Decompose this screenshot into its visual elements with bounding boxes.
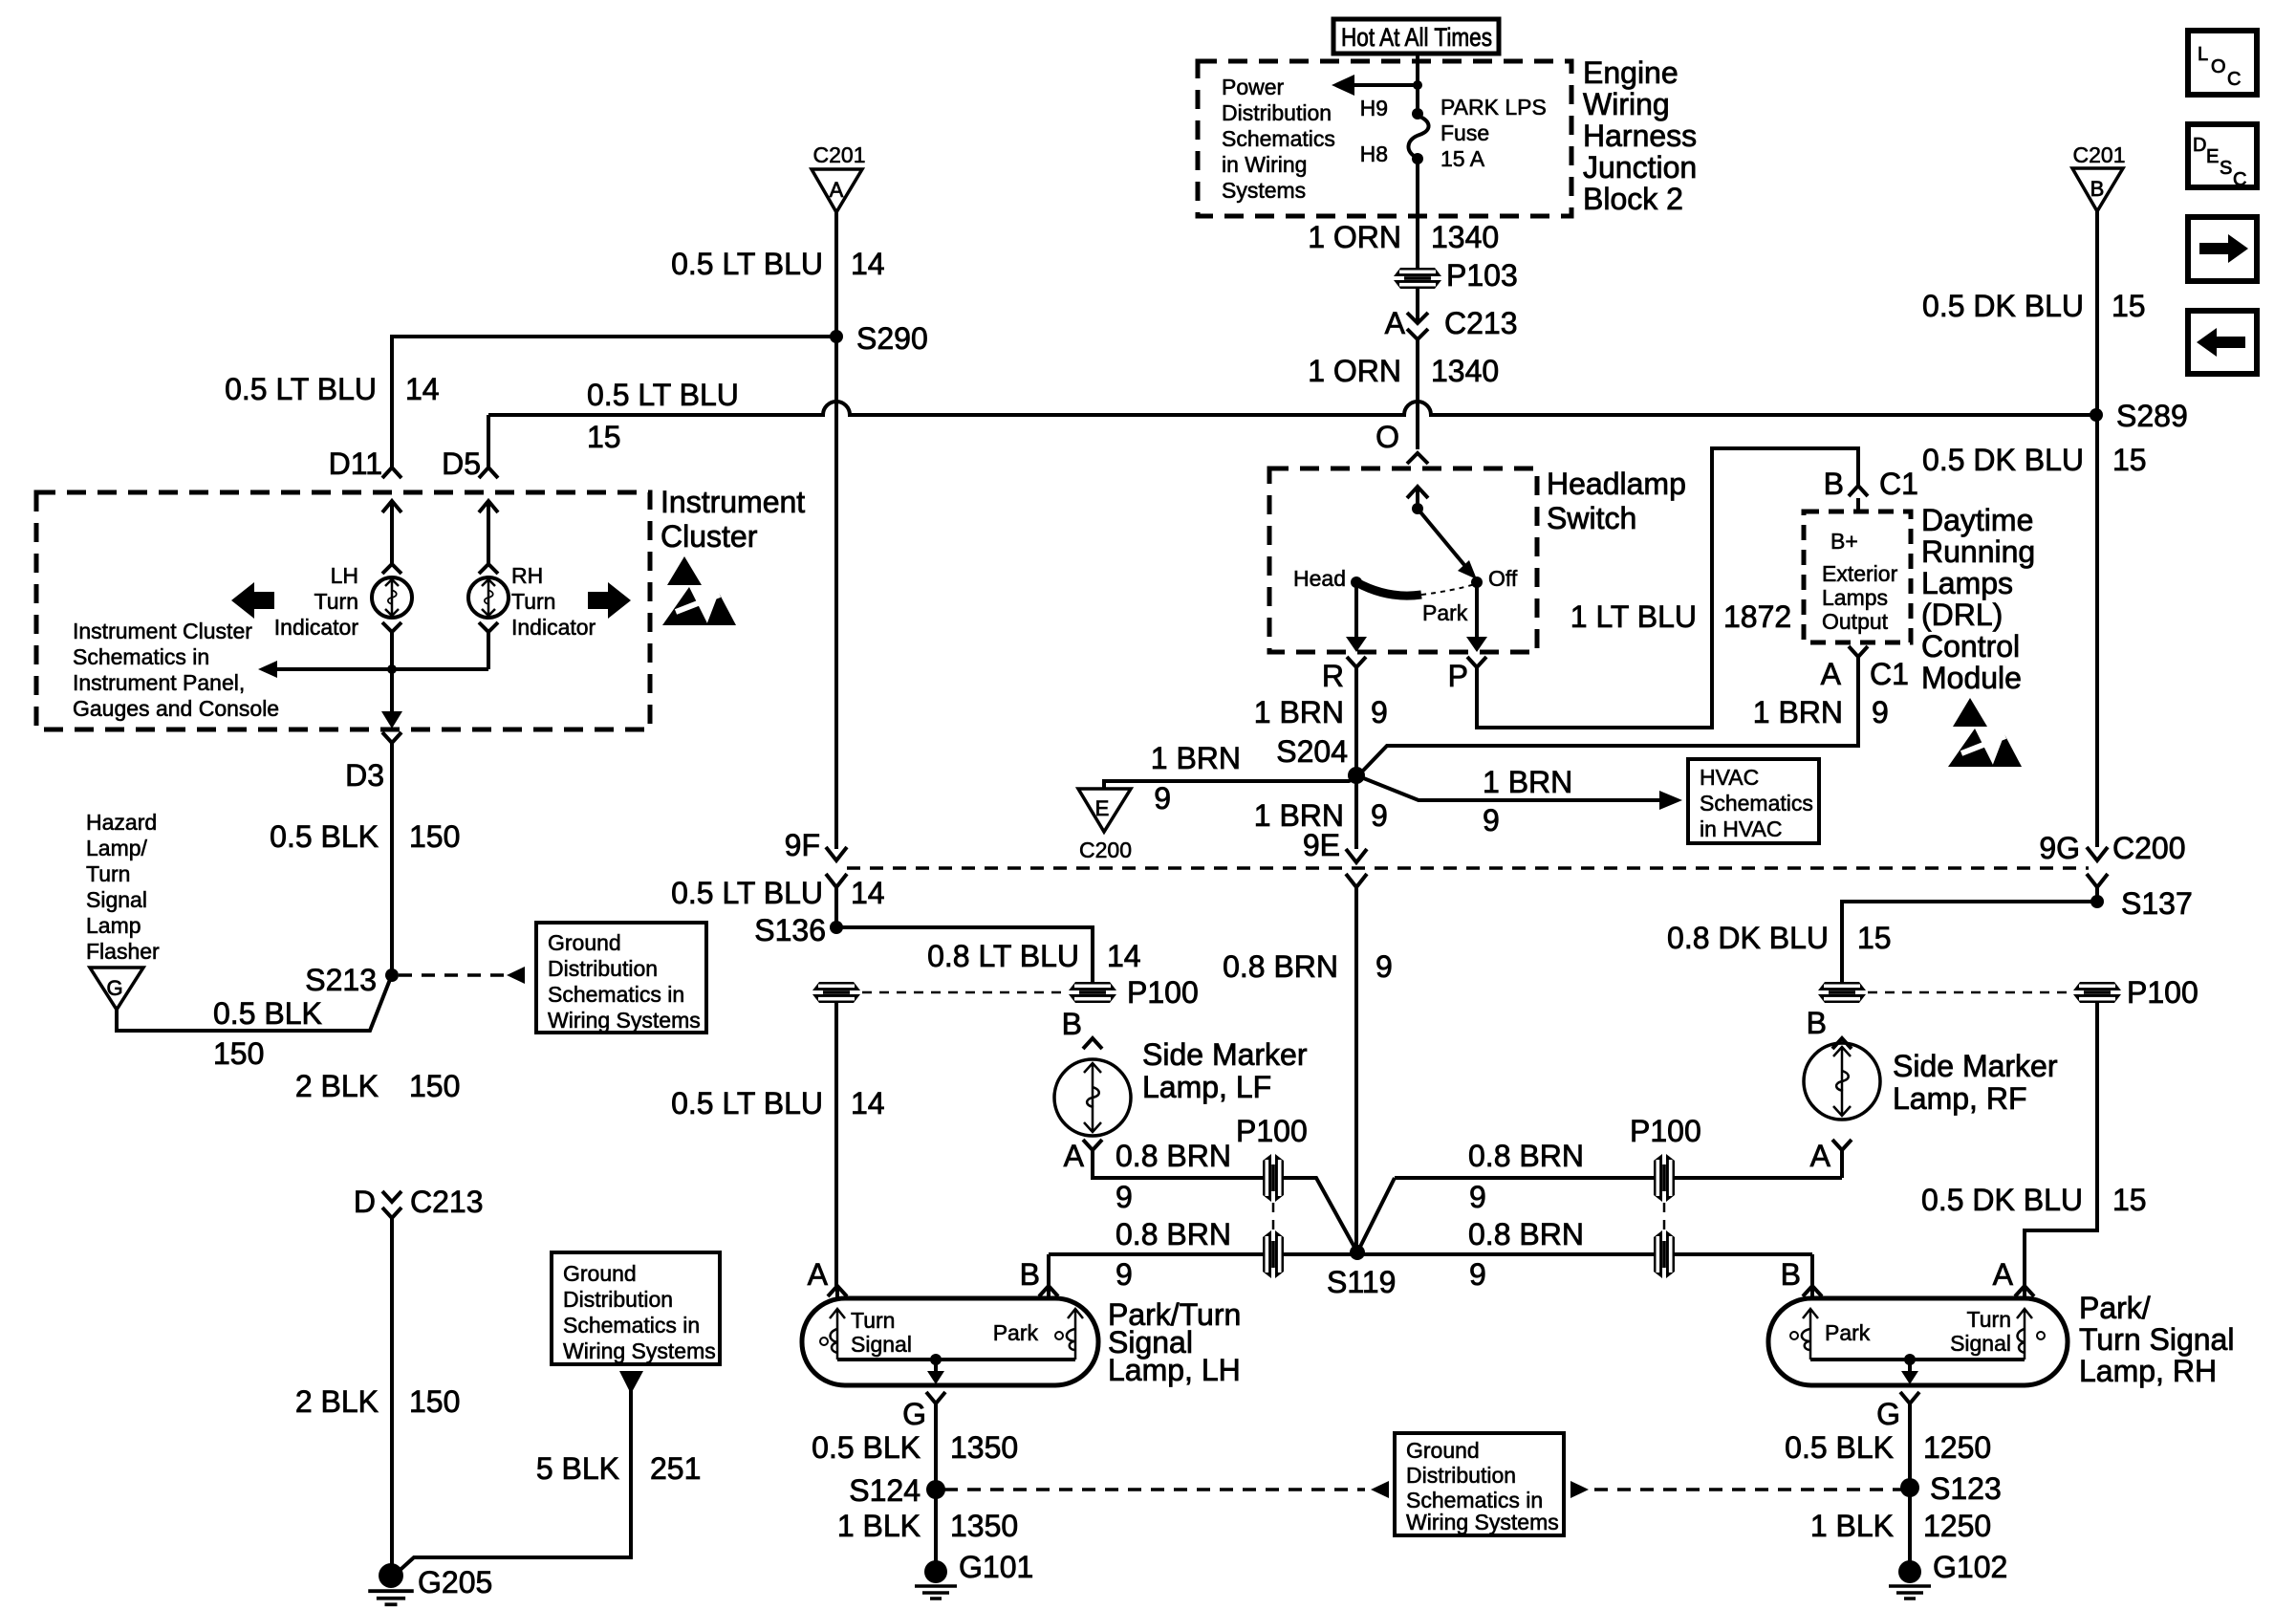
svg-text:P103: P103 [1446,258,1518,293]
dashed box headlamp switch [1269,468,1537,652]
svg-text:9: 9 [1371,695,1388,729]
terminal O [1375,420,1428,509]
label 0.8 BRN / 9 (lower left) [1116,1217,1231,1292]
svg-text:R: R [1322,659,1344,693]
label 0.5 BLK 1350 [812,1430,1018,1465]
svg-text:9: 9 [1469,1257,1486,1292]
svg-text:0.5 LT BLU: 0.5 LT BLU [225,372,377,406]
wire S136 branch to LF marker [836,927,1093,982]
label 0.8 BRN / 9 (upper right) [1468,1139,1584,1214]
svg-text:Systems: Systems [1222,178,1306,203]
splice S137 [2090,886,2193,921]
note Instrument Cluster Schematics in Instrument Panel, Gauges and Console [73,619,279,721]
svg-text:PARK LPS: PARK LPS [1440,95,1547,120]
svg-text:Module: Module [1921,661,2022,695]
wire S290 branch to D11 [392,337,836,468]
label Headlamp Switch [1547,467,1686,535]
splice S119 [1327,1178,1396,1299]
svg-text:1 BLK: 1 BLK [837,1509,921,1543]
svg-text:15: 15 [587,420,621,454]
svg-text:150: 150 [409,819,460,854]
wire P103 to C213 [1416,289,1419,322]
svg-text:E: E [1095,796,1110,820]
svg-text:15 A: 15 A [1440,146,1485,171]
legend box right arrow [2188,217,2257,281]
svg-text:0.8 BRN: 0.8 BRN [1468,1217,1584,1251]
svg-text:S136: S136 [754,913,826,947]
svg-text:9G: 9G [2039,831,2080,865]
svg-text:0.8 BRN: 0.8 BRN [1116,1217,1231,1251]
svg-text:A: A [1064,1139,1085,1173]
wire fuse to P103 [1416,159,1419,269]
svg-text:C213: C213 [410,1185,484,1219]
svg-text:5 BLK: 5 BLK [536,1451,619,1486]
terminal A (RH lamp) [1993,1257,2034,1298]
svg-text:RH: RH [511,563,543,588]
lamp body Park/Turn Signal LH (oval) [802,1298,1098,1385]
lamp common and ground exit [837,1354,1075,1384]
svg-text:H8: H8 [1360,141,1388,166]
label 0.5 BLK 150 [270,819,460,854]
wire 9F to S136 [834,887,838,927]
svg-text:0.5 LT BLU: 0.5 LT BLU [587,378,739,412]
svg-text:9: 9 [1872,695,1889,729]
svg-text:15: 15 [2112,289,2146,323]
label RH Turn Indicator [511,563,596,640]
svg-text:9: 9 [1483,803,1500,838]
svg-text:Headlamp: Headlamp [1547,467,1686,501]
terminal G (RH lamp) [1876,1392,1919,1479]
label 1 ORN 1340 lower [1308,354,1499,388]
dashed ref wire S213 to ground distribution box [399,967,525,984]
svg-text:Harness: Harness [1583,119,1697,153]
svg-text:Wiring Systems: Wiring Systems [563,1338,716,1363]
svg-text:Cluster: Cluster [661,519,758,554]
svg-text:Hazard: Hazard [86,810,157,835]
svg-text:G205: G205 [418,1565,492,1599]
arrow out of box (right) [1570,1481,1589,1498]
svg-text:A: A [830,178,844,202]
svg-text:C213: C213 [1444,306,1518,340]
svg-text:2 BLK: 2 BLK [295,1384,379,1419]
svg-text:S119: S119 [1327,1265,1396,1299]
svg-text:D: D [354,1185,376,1219]
label LH Turn Indicator [274,563,359,640]
splice S204 [1276,734,1365,784]
splice S124 [849,1473,945,1508]
svg-text:Signal: Signal [86,887,147,912]
terminal A (LH lamp) [808,1257,847,1298]
svg-text:9F: 9F [785,828,820,862]
label 2 BLK 150 [295,1069,461,1103]
box Ground Distribution Schematics in Wiring Systems (bottom center) [1395,1433,1564,1535]
wire 5 BLK 251 from box to G205 [394,1371,643,1576]
svg-text:Indicator: Indicator [511,615,596,640]
svg-text:Lamp: Lamp [86,913,141,938]
svg-text:Lamp/: Lamp/ [86,836,148,860]
svg-text:Output: Output [1822,609,1889,634]
svg-text:C201: C201 [2073,142,2126,167]
svg-text:Wiring Systems: Wiring Systems [1406,1510,1559,1534]
svg-text:14: 14 [1107,939,1141,973]
label 0.5 LT BLU 14 (lower) [671,1086,885,1120]
label B+ Exterior Lamps Output [1822,529,1898,634]
lamp LH turn indicator [372,564,412,632]
label 0.8 BRN / 9 (lower right) [1468,1217,1584,1292]
wire P leg [1466,448,1858,728]
dashed ref wire S124 to box [944,1488,1365,1491]
wire S123 to G102 [1908,1488,1912,1561]
svg-text:B+: B+ [1830,529,1858,554]
svg-text:Instrument: Instrument [661,485,805,519]
dashed box instrument cluster [36,492,650,729]
wire S137 branch to RF marker [1842,902,2097,982]
svg-text:1350: 1350 [950,1509,1018,1543]
svg-text:O: O [2211,56,2226,77]
wire S204 to E C200 [1104,778,1356,789]
svg-text:15: 15 [2112,443,2147,477]
svg-text:Turn Signal: Turn Signal [2079,1322,2234,1357]
svg-text:Flasher: Flasher [86,939,160,964]
svg-text:(DRL): (DRL) [1921,598,2003,632]
svg-text:Ground: Ground [563,1261,637,1286]
wire D3 to S213 [390,755,394,975]
label 0.5 DK BLU 15 (below S289) [1922,443,2147,477]
connector A C213 [1385,306,1518,340]
svg-text:15: 15 [2112,1183,2147,1217]
svg-text:P100: P100 [1630,1114,1701,1148]
svg-text:1340: 1340 [1431,220,1499,254]
svg-text:Block 2: Block 2 [1583,182,1683,216]
svg-text:A: A [1385,306,1406,340]
svg-text:0.8 BRN: 0.8 BRN [1468,1139,1584,1173]
svg-text:1350: 1350 [950,1430,1018,1465]
svg-text:P: P [1448,659,1468,693]
svg-text:B: B [1824,467,1844,501]
svg-text:Engine: Engine [1583,55,1679,90]
svg-text:Lamp, RH: Lamp, RH [2079,1354,2217,1388]
svg-text:15: 15 [1857,921,1892,955]
svg-text:Distribution: Distribution [563,1287,673,1312]
svg-text:9: 9 [1371,798,1388,833]
svg-text:A: A [1821,657,1842,691]
svg-text:C200: C200 [2112,831,2186,865]
svg-text:in HVAC: in HVAC [1700,816,1783,841]
svg-text:Signal: Signal [851,1332,912,1357]
label 0.5 LT BLU 14 (D11 branch) [225,372,440,406]
wire C213 to G205 [390,1218,394,1564]
svg-text:2 BLK: 2 BLK [295,1069,379,1103]
svg-text:Wiring Systems: Wiring Systems [548,1008,701,1033]
svg-text:Gauges and Console: Gauges and Console [73,696,279,721]
wire S289 to D5 with hops [488,402,2096,415]
svg-text:Junction: Junction [1583,150,1697,185]
legend box left arrow [2188,311,2257,374]
switch blade and contacts [1351,503,1483,596]
terminal D5 [442,446,498,564]
svg-text:0.8 BRN: 0.8 BRN [1116,1139,1231,1173]
svg-text:Side Marker: Side Marker [1893,1049,2058,1083]
svg-text:G: G [1876,1397,1900,1431]
svg-text:0.5 BLK: 0.5 BLK [1785,1430,1894,1465]
svg-text:14: 14 [851,1086,885,1120]
label 1 BRN 9 (DRL A) [1753,695,1889,729]
dashed connector line C200 [847,866,2089,870]
terminal B (LH lamp) [1020,1254,1058,1298]
svg-text:0.8 BRN: 0.8 BRN [1223,949,1338,984]
svg-text:S204: S204 [1276,734,1348,769]
svg-text:Indicator: Indicator [274,615,359,640]
svg-text:Instrument Panel,: Instrument Panel, [73,670,245,695]
park element LH [1055,1309,1083,1360]
ground G101 [915,1550,1033,1599]
svg-text:Schematics: Schematics [1700,791,1813,816]
svg-text:D3: D3 [345,758,384,793]
svg-text:1 BRN: 1 BRN [1254,695,1344,729]
label 0.8 DK BLU 15 [1667,921,1892,955]
svg-text:1872: 1872 [1723,599,1791,634]
svg-text:Distribution: Distribution [1222,100,1332,125]
svg-text:0.5 BLK: 0.5 BLK [812,1430,921,1465]
svg-text:1 LT BLU: 1 LT BLU [1570,599,1697,634]
svg-text:Lamp, RF: Lamp, RF [1893,1081,2026,1116]
wire flasher G to S213 [117,977,391,1031]
big arrow left (LH) [231,582,274,619]
svg-text:Distribution: Distribution [548,956,658,981]
svg-text:E: E [2206,146,2219,167]
svg-text:0.5 DK BLU: 0.5 DK BLU [1922,443,2084,477]
wire S290 down to 9F [834,337,838,849]
svg-text:0.8 DK BLU: 0.8 DK BLU [1667,921,1829,955]
lamp body Park/Turn Signal RH (oval) [1768,1298,2068,1385]
svg-text:Power: Power [1222,75,1285,99]
wire from Hot box down to fuse [1416,54,1419,114]
label 0.8 BRN / 9 (upper left) [1116,1139,1231,1214]
svg-text:9: 9 [1116,1257,1133,1292]
svg-text:HVAC: HVAC [1700,765,1759,790]
note Power Distribution Schematics in Wiring Systems [1222,75,1335,203]
svg-text:D11: D11 [329,446,382,481]
svg-text:0.8 LT BLU: 0.8 LT BLU [927,939,1079,973]
label 0.5 LT BLU 14 [671,247,885,281]
wire C213 to headlamp switch O [1416,339,1419,449]
box Ground Distribution Schematics in Wiring Systems (lower left) [552,1252,720,1364]
lamp RH turn indicator [468,564,509,632]
svg-text:Wiring: Wiring [1583,87,1670,121]
svg-text:C: C [2227,69,2241,90]
ground G102 [1889,1550,2007,1599]
splice S289 [2090,399,2188,433]
label 0.5 LT BLU 14 (9F row) [671,876,885,910]
label Engine Wiring Harness Junction Block 2 [1583,55,1697,216]
wire D5 drop [487,415,490,468]
svg-text:Lamp, LH: Lamp, LH [1108,1353,1241,1387]
splice S290 [830,321,928,356]
svg-text:Exterior: Exterior [1822,561,1898,586]
label 0.5 LT BLU / 15 [587,378,739,454]
svg-text:B: B [1062,1007,1082,1041]
label 1 ORN 1340 [1308,220,1499,254]
label 0.8 BRN 9 (center) [1223,949,1393,984]
fuse PARK LPS 15A (H9-H8) [1408,108,1428,164]
svg-text:Side Marker: Side Marker [1142,1037,1308,1072]
label 1 BRN 9 / 9E [1254,798,1388,862]
svg-text:0.5 BLK: 0.5 BLK [270,819,379,854]
dashed box DRL exterior lamps output [1804,511,1911,642]
svg-text:Lamps: Lamps [1822,585,1888,610]
svg-text:Signal: Signal [1950,1331,2011,1356]
note Hazard Lamp/Turn Signal Lamp Flasher [86,810,160,964]
svg-text:P100: P100 [2127,975,2199,1010]
label Park/ Turn Signal Lamp, RH [2079,1291,2234,1388]
svg-text:S289: S289 [2116,399,2188,433]
svg-text:P100: P100 [1127,975,1199,1010]
label 1 BRN 9 (R leg) [1254,695,1388,729]
dashed box Engine Wiring Harness Junction Block 2 [1198,61,1571,216]
wire S137 column down to RH lamp A [2025,1003,2097,1286]
connector C201 A triangle [812,142,865,212]
wire lower left run (LH lamp B to S119) [1049,1252,1812,1256]
svg-text:1 BRN: 1 BRN [1483,765,1572,799]
label Turn Signal [851,1308,912,1357]
legend box LOC [2188,31,2257,95]
svg-text:A: A [1993,1257,2014,1292]
svg-text:S137: S137 [2121,886,2193,921]
svg-text:Schematics in: Schematics in [548,982,684,1007]
svg-text:D: D [2193,135,2206,156]
svg-text:Off: Off [1488,566,1518,591]
svg-text:150: 150 [213,1036,264,1071]
svg-text:C1: C1 [1870,657,1909,691]
svg-text:Turn: Turn [86,861,130,886]
terminal B C1 [1824,467,1918,511]
connector G triangle (flasher) [90,968,143,1010]
terminal 9F [785,828,847,887]
connector P100 pair (S136 column) [812,975,1199,1010]
label Side Marker Lamp, LF [1142,1037,1308,1104]
svg-text:Turn: Turn [314,589,358,614]
connector C201 B triangle [2072,142,2125,211]
connector P103 [1394,258,1518,293]
terminal G (LH lamp) [902,1392,945,1481]
svg-text:Distribution: Distribution [1406,1463,1516,1488]
label Park/Turn Signal Lamp, LH [1108,1297,1241,1387]
label 1 BRN / 9 (HVAC wire) [1483,765,1572,838]
svg-text:0.5 LT BLU: 0.5 LT BLU [671,876,823,910]
terminal A of LF marker [1064,1139,1102,1173]
svg-text:Schematics in: Schematics in [563,1313,700,1338]
svg-text:Schematics in: Schematics in [73,644,209,669]
svg-text:Park: Park [993,1320,1039,1345]
svg-text:9: 9 [1375,949,1393,984]
svg-text:C1: C1 [1879,467,1918,501]
svg-text:in Wiring: in Wiring [1222,152,1307,177]
splice S123 [1900,1471,2002,1506]
wire C201A to S290 [834,212,838,337]
wire S124 to G101 [934,1490,938,1561]
lamp side marker RF [1804,1006,1880,1120]
svg-text:1250: 1250 [1923,1430,1991,1465]
svg-text:B: B [1781,1257,1801,1292]
wire DRL A to S204 [1363,657,1858,771]
svg-text:B: B [2090,177,2105,201]
svg-text:Running: Running [1921,534,2035,569]
wire P100 down to LH lamp A [834,1003,838,1286]
wire junction of both indicators [258,632,488,678]
wire junction down to D3, exit arrow [381,669,402,755]
terminal A C1 [1821,646,1909,691]
svg-text:L: L [2198,44,2208,65]
wire LF marker A to S119 (upper left run) [1093,1150,1263,1178]
svg-text:Turn: Turn [511,589,555,614]
svg-text:Fuse: Fuse [1440,120,1489,145]
svg-text:251: 251 [650,1451,701,1486]
arrow to power distribution [1332,75,1422,96]
svg-text:150: 150 [409,1069,460,1103]
ESD symbol DRL [1948,698,2022,767]
connector P100 vertical pair (left) [1236,1114,1308,1278]
splice S136 [754,913,843,947]
label Turn Signal (RH) [1950,1307,2011,1356]
label PARK LPS Fuse 15 A [1440,95,1547,171]
terminal D11 [329,446,401,564]
wire C201B to S289 [2095,211,2099,415]
svg-text:150: 150 [409,1384,460,1419]
park element RH [1790,1309,1818,1360]
box Hot At All Times [1333,19,1499,54]
wire R leg [1346,582,1367,775]
svg-text:0.5 LT BLU: 0.5 LT BLU [671,247,823,281]
svg-text:Lamp, LF: Lamp, LF [1142,1070,1271,1104]
svg-text:1 BRN: 1 BRN [1753,695,1843,729]
svg-text:Turn: Turn [1967,1307,2011,1332]
svg-text:0.5 DK BLU: 0.5 DK BLU [1921,1183,2083,1217]
label 0.5 DK BLU 15 [1922,289,2146,323]
arrow into box (left) [1371,1481,1389,1498]
connector P100 pair (S137 column) [1818,975,2199,1010]
svg-text:S213: S213 [305,963,377,997]
svg-text:S: S [2220,158,2232,179]
svg-text:1250: 1250 [1923,1509,1991,1543]
splice S213 [305,963,399,997]
svg-text:S290: S290 [856,321,928,356]
svg-text:Turn: Turn [851,1308,895,1333]
svg-text:Park/: Park/ [2079,1291,2151,1325]
label Daytime Running Lamps (DRL) Control Module [1921,503,2035,695]
label 1 BLK 1250 [1810,1509,1991,1543]
svg-text:9E: 9E [1303,828,1340,862]
svg-text:C200: C200 [1079,838,1132,862]
label 5 BLK 251 [536,1451,702,1486]
terminal 9E lower [1346,874,1367,1252]
terminal 9G C200 [2039,831,2185,902]
dashed ref wire box to S123 [1594,1488,1901,1491]
label 0.8 LT BLU 14 [927,939,1141,973]
svg-text:B: B [1020,1257,1040,1292]
wire upper right run (S119 to RF marker A) [1395,1150,1842,1178]
svg-text:Head: Head [1293,566,1346,591]
svg-text:C: C [2233,169,2246,190]
svg-text:9: 9 [1116,1180,1133,1214]
legend box DESC [2188,124,2257,190]
svg-text:Park: Park [1422,600,1468,625]
label 1 BRN / 9 (E wire) [1151,741,1241,816]
terminal A of RF marker [1810,1139,1852,1173]
lamp common and ground exit RH [1810,1354,2025,1384]
wire S204 to HVAC arrow [1356,775,1682,810]
svg-text:0.5 DK BLU: 0.5 DK BLU [1922,289,2084,323]
wire S204 down to 9E [1346,775,1367,862]
